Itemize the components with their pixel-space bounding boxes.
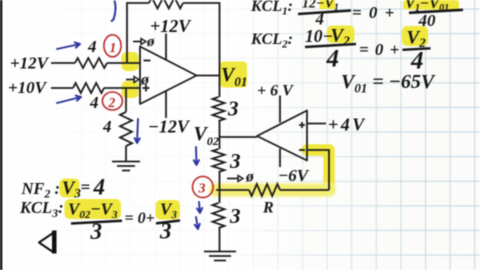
svg-text:+12V: +12V bbox=[150, 16, 192, 36]
svg-text:4: 4 bbox=[102, 117, 112, 136]
svg-text:4: 4 bbox=[89, 93, 99, 112]
svg-text:ø: ø bbox=[146, 34, 155, 50]
svg-text:2: 2 bbox=[108, 95, 116, 110]
svg-text:ø: ø bbox=[245, 169, 254, 186]
svg-text:40: 40 bbox=[418, 11, 437, 30]
svg-text:3: 3 bbox=[229, 204, 241, 228]
svg-text:+6V: +6V bbox=[257, 83, 297, 100]
svg-text:+12V: +12V bbox=[10, 54, 50, 73]
svg-text:3: 3 bbox=[229, 149, 241, 173]
svg-text:3: 3 bbox=[90, 219, 103, 244]
svg-text:R: R bbox=[262, 200, 274, 217]
svg-text:4: 4 bbox=[87, 37, 97, 56]
svg-text:1: 1 bbox=[110, 40, 117, 55]
svg-text:ø: ø bbox=[140, 72, 150, 89]
svg-text:3: 3 bbox=[198, 182, 206, 197]
svg-text:10−: 10− bbox=[305, 26, 333, 46]
svg-text:+10V: +10V bbox=[8, 78, 48, 97]
svg-text:3: 3 bbox=[227, 97, 239, 121]
svg-text:3: 3 bbox=[159, 219, 172, 244]
svg-text:V02−V3: V02−V3 bbox=[68, 200, 118, 222]
svg-text:= 0 +: = 0 + bbox=[352, 3, 396, 22]
svg-text:4: 4 bbox=[326, 46, 340, 73]
svg-text:= 0+: = 0+ bbox=[125, 210, 155, 227]
svg-text:−12V: −12V bbox=[148, 117, 191, 137]
svg-text:= 0 +: = 0 + bbox=[359, 40, 400, 59]
svg-text:+4V: +4V bbox=[328, 115, 367, 135]
svg-text:4: 4 bbox=[93, 175, 106, 200]
svg-text:=: = bbox=[81, 178, 91, 197]
svg-text:−6V: −6V bbox=[278, 166, 310, 185]
